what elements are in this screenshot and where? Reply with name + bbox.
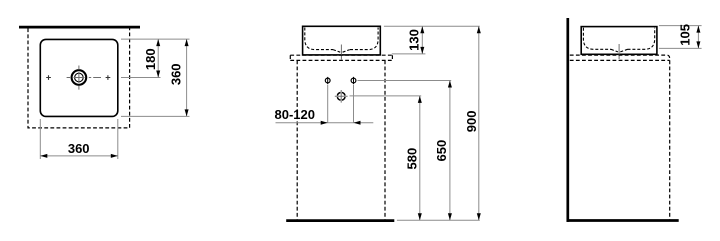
drain centerline (front) — [340, 45, 342, 60]
drain outer circle — [72, 70, 87, 85]
extension line rim bottom — [121, 115, 190, 117]
dimension 650 line — [449, 81, 451, 221]
dimension 180 line — [157, 39, 159, 77]
dimension 130 line — [421, 26, 423, 54]
drain centerline (side) — [618, 44, 620, 59]
water supply connection right — [351, 78, 356, 83]
drain inner circle — [75, 73, 84, 82]
waste outlet symbol — [335, 90, 348, 103]
svg-text:580: 580 — [405, 148, 420, 170]
svg-text:650: 650 — [434, 140, 449, 162]
extension line rim top (front) — [384, 25, 480, 27]
basin rim (rounded square) — [40, 39, 118, 116]
svg-text:360: 360 — [68, 141, 90, 156]
wall line (top view) — [19, 26, 140, 29]
extension line floor for dims — [397, 219, 480, 221]
svg-text:180: 180 — [143, 48, 158, 70]
tap position cross right — [106, 75, 111, 80]
extension line supply height for 650 — [358, 80, 452, 82]
countertop dashed (front) — [290, 55, 392, 60]
svg-text:80-120: 80-120 — [275, 107, 315, 122]
basin inner contour dashed (side) — [583, 28, 654, 50]
tap position cross left — [46, 75, 51, 80]
dimension 105 line — [697, 26, 699, 49]
svg-text:105: 105 — [677, 24, 692, 46]
drain recess V (side) — [611, 49, 628, 52]
svg-text:360: 360 — [168, 63, 183, 85]
basin body (side) — [581, 27, 657, 55]
extension line basin bottom for 130 — [392, 53, 426, 55]
extension line waste height for 580 — [350, 95, 422, 97]
extension line drain center — [121, 77, 161, 79]
dimension 80-120 line — [276, 122, 374, 124]
dimension 900 line — [478, 26, 480, 220]
svg-text:130: 130 — [407, 29, 422, 51]
drain recess V (front) — [333, 50, 350, 53]
dimension 360 bottom line — [40, 155, 118, 157]
wall line (side) — [566, 18, 569, 222]
cabinet dashed (front) — [297, 60, 385, 219]
dimension 360 vertical line — [186, 39, 188, 116]
cabinet dashed (side) — [669, 60, 671, 219]
floor line (front) — [286, 219, 394, 222]
extension line inner depth (side) — [659, 47, 702, 49]
dashed installation outline square — [28, 28, 130, 128]
countertop dashed (side) — [570, 55, 670, 60]
extension line top (rim top) — [121, 38, 190, 40]
extension lines from supply circles down — [328, 85, 354, 123]
dimension 580 line — [419, 96, 421, 220]
svg-text:900: 900 — [464, 111, 479, 133]
basin inner contour dashed (front) — [305, 28, 378, 50]
basin body (front) — [303, 26, 381, 55]
water supply connection left — [325, 78, 330, 83]
centerline ticks around drain — [67, 66, 101, 90]
drain center cross — [74, 72, 85, 83]
floor line (side) — [567, 219, 679, 222]
extension line rim top (side) — [659, 25, 702, 27]
extension lines for bottom 360 — [40, 119, 118, 159]
